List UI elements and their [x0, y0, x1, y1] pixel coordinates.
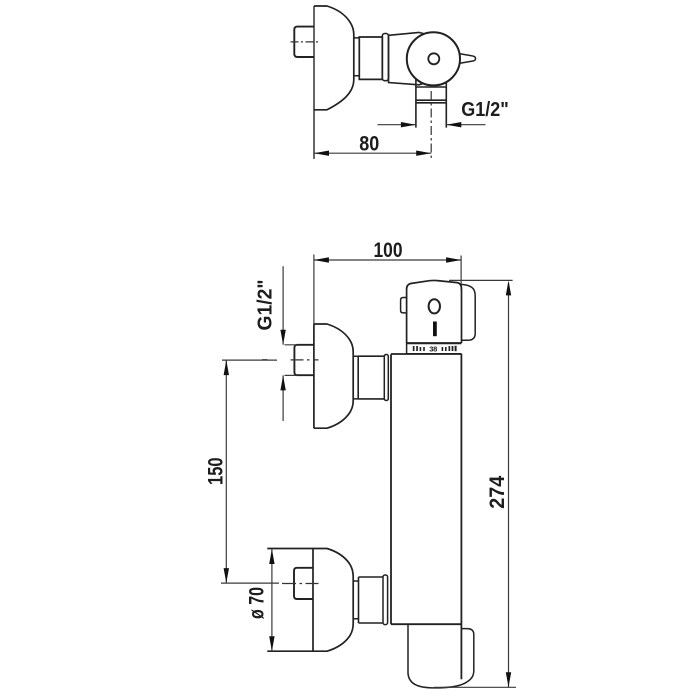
svg-text:ø 70: ø 70 [246, 587, 269, 619]
escutcheon (wall rosette, side) [314, 6, 354, 110]
top connection neck [353, 356, 358, 399]
svg-text:80: 80 [359, 132, 379, 155]
dimension 100 [314, 255, 461, 325]
svg-text:150: 150 [205, 457, 228, 485]
dimension G1/2 (top) [378, 124, 486, 126]
head oval mark [429, 299, 440, 313]
wall nut [294, 27, 314, 57]
screw cap [428, 53, 439, 64]
flange band [382, 34, 388, 81]
top nut center line [262, 359, 319, 361]
svg-text:274: 274 [486, 475, 509, 508]
temperature scale ring [407, 343, 462, 354]
dimension 150 [221, 360, 279, 583]
dimension 274 [434, 280, 516, 687]
head left tab [401, 298, 407, 313]
thermostat head [407, 280, 462, 343]
bottom adapter band [383, 575, 388, 625]
valve housing (behind circle) [389, 32, 426, 84]
neck between escutcheon and cylinder [354, 38, 360, 76]
bottom wall connection: escutcheon with extension edges [267, 549, 353, 652]
outlet center line [430, 91, 432, 159]
svg-text:G1/2": G1/2" [461, 98, 509, 121]
svg-text:G1/2": G1/2" [254, 280, 277, 331]
head backplate [462, 284, 476, 340]
center line of wall nut [291, 41, 320, 43]
svg-text:100: 100 [374, 239, 403, 262]
bottom nut center line [282, 583, 319, 585]
dimension dia 70 [271, 549, 273, 651]
scale tick marks [413, 346, 457, 351]
dimension G1/2 (bottom left, vertical) [283, 266, 297, 421]
mixer body [391, 354, 461, 680]
dimension 80 [314, 152, 431, 154]
bottom adapter [359, 577, 384, 623]
top adapter band [384, 355, 388, 401]
svg-text:38: 38 [429, 344, 437, 353]
valve round body [407, 32, 460, 85]
wall line / extension line [313, 6, 315, 159]
bottom outlet [408, 624, 474, 688]
top wall nut [294, 345, 314, 375]
top wall connection: escutcheon [314, 324, 353, 428]
handle pointer [460, 54, 476, 64]
cylinder body [359, 37, 382, 79]
bottom wall nut [294, 568, 313, 599]
outlet pipe below [416, 79, 446, 128]
head bar mark [433, 322, 437, 337]
top adapter [358, 356, 384, 399]
bottom connection neck [353, 581, 358, 619]
